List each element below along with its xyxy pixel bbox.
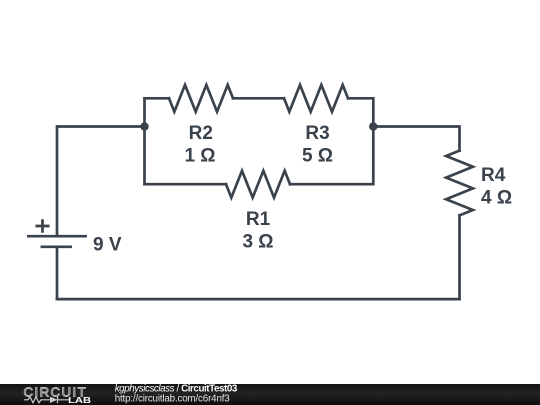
svg-text:LAB: LAB bbox=[68, 396, 91, 405]
svg-text:R4: R4 bbox=[481, 165, 506, 186]
wire: left node down to middle branch bbox=[143, 127, 146, 185]
node B (right junction) bbox=[369, 122, 377, 130]
wire: bottom rail bbox=[57, 298, 460, 301]
wire: R1 right lead to right node bbox=[290, 127, 373, 185]
resistor R1 bbox=[226, 171, 290, 198]
svg-text:3 Ω: 3 Ω bbox=[242, 232, 273, 253]
battery V (9V source) plates bbox=[28, 236, 85, 247]
node A (left junction) bbox=[140, 122, 148, 130]
svg-text:R2: R2 bbox=[189, 123, 213, 144]
svg-text:http://circuitlab.com/c6r4nf3: http://circuitlab.com/c6r4nf3 bbox=[115, 393, 231, 404]
resistor R4 bbox=[446, 151, 473, 216]
footer bar bbox=[0, 384, 540, 405]
svg-text:5 Ω: 5 Ω bbox=[302, 146, 333, 167]
svg-text:R1: R1 bbox=[246, 209, 271, 230]
svg-text:1 Ω: 1 Ω bbox=[184, 146, 215, 167]
wire: top-left corner to R2 left lead bbox=[145, 97, 170, 100]
wire: battery bottom to bottom rail bbox=[56, 247, 59, 299]
wire: middle-branch left segment to R1 bbox=[145, 183, 227, 186]
wire: left rail from battery up and to left node bbox=[57, 127, 145, 237]
resistor R2 bbox=[169, 85, 233, 112]
wire: R3 right lead to top-right corner and down to right node bbox=[348, 98, 373, 126]
wire: left node to top-left corner up bbox=[143, 98, 146, 126]
svg-text:9 V: 9 V bbox=[93, 235, 122, 256]
resistor R3 bbox=[284, 85, 348, 112]
wire: R2 right lead to R3 left lead bbox=[233, 97, 284, 100]
battery plus sign bbox=[37, 221, 48, 232]
svg-text:4 Ω: 4 Ω bbox=[481, 188, 512, 209]
CircuitLab logo: resistor-diode symbol bbox=[24, 397, 69, 404]
wire: right node to R4 top corner bbox=[373, 127, 459, 151]
svg-text:R3: R3 bbox=[305, 123, 329, 144]
wire: R4 bottom lead to bottom rail bbox=[458, 215, 461, 299]
